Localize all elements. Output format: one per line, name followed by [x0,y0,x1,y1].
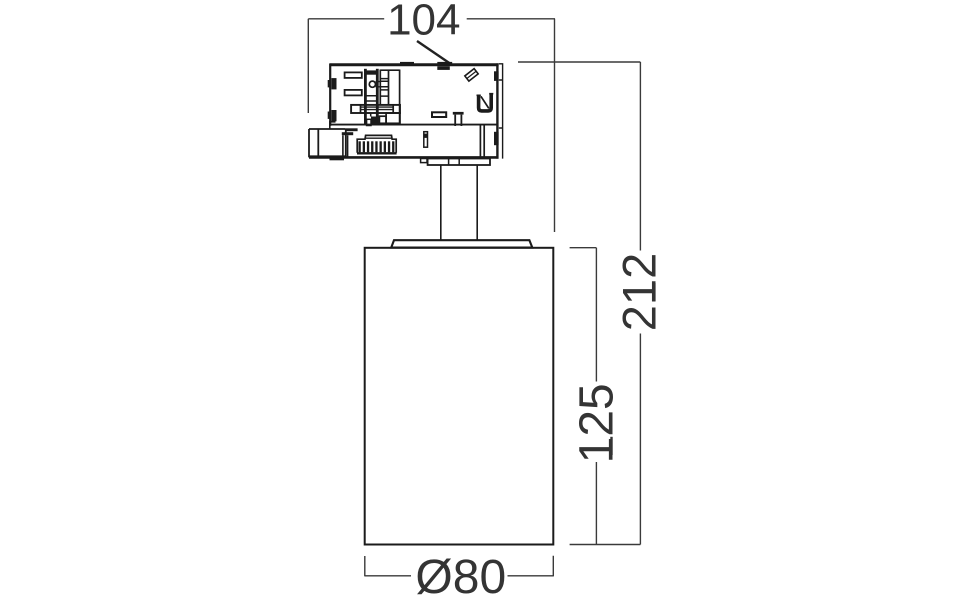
svg-text:125: 125 [571,383,624,463]
svg-text:212: 212 [613,253,666,331]
svg-text:104: 104 [387,0,460,44]
svg-text:Ø80: Ø80 [415,551,506,600]
